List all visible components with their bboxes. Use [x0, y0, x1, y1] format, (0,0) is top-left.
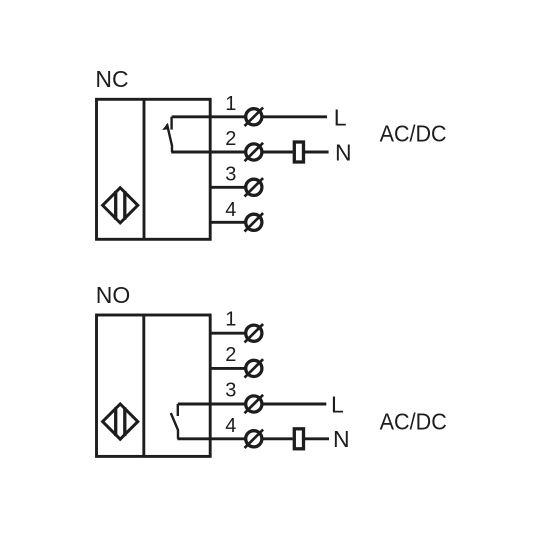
svg-text:AC/DC: AC/DC	[380, 120, 447, 146]
svg-text:L: L	[334, 104, 347, 130]
svg-text:4: 4	[225, 415, 236, 437]
svg-text:N: N	[335, 140, 352, 166]
svg-text:1: 1	[225, 93, 236, 115]
svg-text:L: L	[331, 391, 344, 417]
svg-text:NC: NC	[95, 66, 128, 92]
svg-text:N: N	[333, 426, 350, 452]
svg-text:NO: NO	[96, 282, 131, 308]
svg-text:2: 2	[225, 128, 236, 150]
svg-text:3: 3	[225, 164, 236, 186]
svg-text:4: 4	[225, 199, 236, 221]
svg-text:2: 2	[225, 344, 236, 366]
svg-text:1: 1	[225, 309, 236, 331]
svg-text:3: 3	[225, 380, 236, 402]
svg-text:AC/DC: AC/DC	[380, 409, 447, 435]
